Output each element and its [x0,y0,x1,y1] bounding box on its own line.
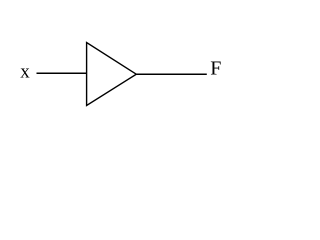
svg-text:x: x [20,62,30,83]
svg-text:F: F [210,58,221,80]
wire buffer output to F [136,73,207,75]
buffer U1 triangle [87,43,137,106]
wire input x to buffer [37,72,88,74]
